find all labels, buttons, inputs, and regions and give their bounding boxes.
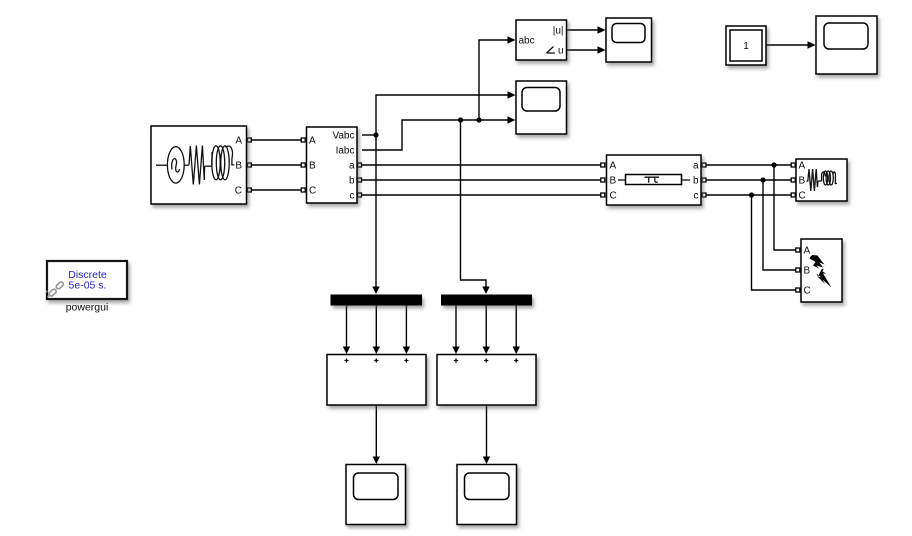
arrowhead Scope2 input 2 [508,116,516,123]
arrowhead abc block input [508,36,516,43]
arrowhead Scope1 input 2 [598,46,606,53]
junction node b [760,177,765,182]
arrowhead Scope1 input 1 [598,26,606,33]
scope U1 (magnitude-angle scope) [606,18,652,62]
port square PI line a [702,163,706,167]
svg-text:5e-05 s.: 5e-05 s. [69,280,107,292]
wire Demux2 out 3 to Sum2 [515,306,517,349]
wire source A to measurement A [251,139,301,141]
wire measurement a to PI line A [362,164,601,166]
port square measurement B [301,163,305,167]
demux Demux2 [441,295,532,306]
port square load B [791,178,795,182]
svg-text:C: C [235,186,242,197]
svg-text:A: A [804,246,811,257]
svg-text:Iabc: Iabc [336,146,355,157]
svg-text:A: A [799,161,806,172]
block Three-Phase Fault [801,239,842,302]
block powergui [46,261,127,299]
wire branch a to fault A [774,165,796,250]
port square measurement b [358,178,362,182]
svg-text:C: C [309,186,316,197]
wire Vabc junction down to Demux1 [375,135,377,288]
svg-text:B: B [235,161,242,172]
wire Demux1 out 1 to Sum1 [346,306,348,349]
wire Demux1 out 3 to Sum1 [405,306,407,349]
port square measurement c [358,193,362,197]
wire abc angle-u to Scope1 input 2 [567,49,599,51]
port square fault C [796,288,800,292]
arrowhead Scope3 input [373,457,380,465]
svg-text:u: u [558,46,564,57]
wire abc |u| to Scope1 input 1 [567,29,599,31]
svg-text:a: a [693,161,699,172]
svg-text:B: B [799,176,806,187]
arrowhead Sum1 in 1 [343,347,350,355]
arrowhead Demux1 input [372,287,379,295]
junction node a [771,162,776,167]
arrowhead Sum2 in 3 [513,347,521,355]
svg-text:A: A [610,161,617,172]
port square PI line A [601,163,605,167]
port square PI line C [601,193,605,197]
wire PI line b to load B [706,179,791,181]
label powergui [66,302,109,314]
block Three-Phase PI Section Line [607,155,702,205]
port square load C [791,193,795,197]
svg-text:Vabc: Vabc [332,131,354,142]
svg-text:|u|: |u| [553,26,564,37]
port square PI line B [601,178,605,182]
demux Demux1 [331,295,423,306]
port square fault A [796,248,800,252]
port square measurement A [301,138,305,142]
wire PI line a to load A [706,164,791,166]
svg-text:c: c [350,191,355,202]
svg-text:abc: abc [519,36,535,47]
arrowhead Sum1 in 2 [373,347,380,355]
wire Vabc junction up to Scope2 input 1 [376,95,509,135]
block Three-Phase V-I Measurement [307,127,358,203]
junction node Vabc [373,132,378,137]
arrowhead Scope4 input [483,457,490,465]
wire Sum2 out to Scope4 [486,405,488,458]
scope Scope3 [346,465,406,525]
scope Vabc-Iabc [516,81,567,134]
svg-text:A: A [309,136,316,147]
wire PI line c to load C [706,194,791,196]
port square load A [791,163,795,167]
wire Demux2 out 2 to Sum2 [485,306,487,349]
port square source A [247,138,251,142]
wire measurement b to PI line B [362,179,601,181]
svg-text:A: A [235,136,242,147]
svg-text:C: C [804,286,811,297]
svg-text:powergui: powergui [66,302,109,314]
svg-text:a: a [349,161,355,172]
wire Constant to Scope5 [766,44,809,46]
scope Scope4 [457,465,517,525]
arrowhead Sum2 in 1 [452,347,459,355]
port square fault B [796,268,800,272]
wire Sum1 out to Scope3 [375,405,377,458]
svg-text:C: C [799,191,806,202]
port square PI line b [702,178,706,182]
svg-text:b: b [349,176,355,187]
port square source C [247,188,251,192]
junction node c [749,192,754,197]
wire Demux1 out 2 to Sum1 [375,306,377,349]
arrowhead Scope5 input [808,41,816,48]
arrowhead Demux2 input [482,287,489,295]
junction node Iabc demux branch [458,117,463,122]
block Sum1 (three + inputs) [327,355,426,406]
wire source B to measurement B [251,164,301,166]
port square measurement a [358,163,362,167]
scope top-right [816,16,877,74]
arrowhead Scope2 input 1 [508,91,516,98]
block Constant 1 [726,26,766,65]
block abc to Magnitude-Angle [516,20,567,60]
port square measurement C [301,188,305,192]
wire Demux2 out 1 to Sum2 [455,306,457,349]
svg-text:c: c [694,191,699,202]
wire Iabc branch up to abc block input [479,40,509,120]
wire Iabc to Scope2 input 2 [362,120,509,150]
wire Iabc branch down to Demux2 [461,120,487,288]
block Three-Phase Source [151,126,247,204]
wire measurement c to PI line C [362,194,601,196]
block Three-Phase Series RLC Load [796,159,847,202]
block Sum2 (three + inputs) [437,355,536,406]
wire source C to measurement C [251,189,301,191]
arrowhead Sum2 in 2 [483,347,490,355]
svg-text:B: B [804,266,811,277]
port square PI line c [702,193,706,197]
arrowhead Sum1 in 3 [403,347,410,355]
wire branch c to fault C [752,195,796,290]
svg-text:C: C [610,191,617,202]
svg-text:b: b [693,176,699,187]
port square source B [247,163,251,167]
wire branch b to fault B [763,180,796,270]
svg-text:B: B [309,161,316,172]
junction node Iabc abc branch [476,117,481,122]
svg-text:B: B [610,176,617,187]
wire Vabc to junction [362,134,376,136]
svg-text:1: 1 [743,41,749,52]
